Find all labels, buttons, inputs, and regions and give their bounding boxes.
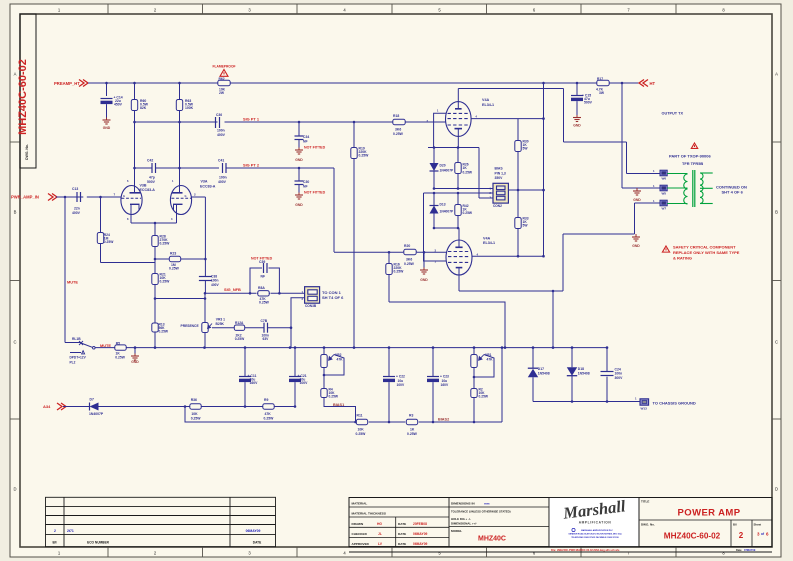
svg-text:300V: 300V [615, 376, 624, 380]
resistor R26 [457, 148, 459, 162]
svg-text:POWER AMP: POWER AMP [678, 508, 741, 519]
svg-text:D20: D20 [440, 164, 446, 168]
wire A34 line [63, 406, 90, 408]
wire chassis ground rail [533, 401, 640, 403]
svg-text:82K: 82K [140, 106, 147, 110]
svg-text:D17: D17 [538, 367, 544, 371]
svg-text:AMPLIFICATION: AMPLIFICATION [579, 521, 612, 525]
svg-text:HG: HG [377, 522, 382, 526]
capacitor C34 not fitted [298, 122, 300, 136]
svg-text:DWG. No.: DWG. No. [641, 523, 655, 527]
ground below C34 [298, 148, 300, 151]
svg-text:TO CHASSIS GROUND: TO CHASSIS GROUND [653, 401, 696, 406]
tube V3B ECC83 [121, 186, 142, 215]
svg-text:22n: 22n [74, 207, 80, 211]
resistor R18 [392, 121, 406, 123]
svg-text:0.25W: 0.25W [159, 330, 169, 334]
capacitor C13 [76, 192, 78, 202]
svg-text:MODEL: MODEL [451, 529, 462, 533]
marshall logo box [549, 498, 639, 547]
title block outline [349, 498, 772, 547]
svg-text:GND: GND [420, 278, 428, 282]
wire plate A to W6 branch [563, 89, 565, 143]
svg-text:R20: R20 [404, 244, 410, 248]
svg-text:MHZ40C-60-02: MHZ40C-60-02 [664, 532, 721, 541]
svg-text:D: D [775, 487, 778, 492]
svg-text:350V: 350V [495, 176, 504, 180]
potentiometer VR2 [323, 348, 325, 353]
svg-text:BIAS: BIAS [495, 167, 504, 171]
svg-text:0.25W: 0.25W [463, 170, 473, 174]
potentiometer VR1 [473, 348, 475, 353]
capacitor C11 [244, 348, 246, 377]
wire mute net vertical [64, 197, 66, 343]
svg-text:R5: R5 [116, 341, 120, 345]
svg-text:SIG_NFB: SIG_NFB [224, 287, 241, 292]
capacitor C22 [388, 348, 390, 377]
svg-text:GND: GND [131, 360, 139, 364]
node bus junctions [154, 346, 157, 349]
svg-text:2t71: 2t71 [67, 529, 74, 533]
wire bias lower line [185, 407, 356, 423]
wire pin2 V3A to lower rail [191, 196, 205, 198]
drawing number side box [20, 14, 36, 168]
capacitor C36 [215, 117, 217, 128]
svg-text:1N4007P: 1N4007P [440, 168, 455, 172]
resistor R42 [457, 193, 459, 203]
svg-text:0.25W: 0.25W [359, 154, 370, 158]
svg-text:RL1B: RL1B [72, 337, 81, 341]
svg-text:V4A: V4A [483, 236, 491, 240]
resistor R5 [114, 347, 127, 349]
wire R23 row [155, 258, 205, 260]
capacitor C41 [222, 163, 224, 173]
svg-text:NF: NF [261, 275, 266, 279]
svg-text:ECO NUMBER: ECO NUMBER [87, 541, 109, 545]
svg-text:0.25W: 0.25W [169, 267, 180, 271]
svg-text:ECC83-A: ECC83-A [200, 184, 216, 188]
wire CON2 pin1 row [434, 188, 493, 190]
resistor R9 [262, 406, 275, 408]
svg-text:SAFETY CRITICAL COMPONENT: SAFETY CRITICAL COMPONENT [673, 244, 736, 249]
wire R24 rail [101, 262, 156, 264]
svg-text:DWG. No.: DWG. No. [25, 144, 29, 160]
diode D13 [433, 193, 435, 206]
svg-text:450V: 450V [114, 103, 123, 107]
svg-text:2: 2 [739, 531, 744, 540]
revision table [46, 497, 276, 546]
svg-text:B: B [775, 210, 778, 215]
svg-text:& RATING: & RATING [673, 255, 692, 260]
svg-text:1K: 1K [410, 427, 415, 431]
svg-text:MHZ40C-60-02: MHZ40C-60-02 [17, 59, 29, 135]
svg-text:500V: 500V [147, 180, 156, 184]
resistor R16 [388, 252, 390, 262]
svg-text:0.25W: 0.25W [104, 240, 114, 244]
capacitor C39 not fitted [250, 268, 262, 293]
svg-text:06MAY09: 06MAY09 [413, 532, 428, 536]
svg-text:47K: 47K [337, 357, 344, 361]
wire pin1 lower tube [424, 193, 447, 261]
svg-text:Date: Date [736, 548, 742, 552]
resistor R33 [517, 190, 519, 216]
resistor R3 [406, 421, 419, 423]
svg-text:PL2: PL2 [70, 361, 76, 365]
svg-text:C34: C34 [303, 135, 309, 139]
svg-text:R11: R11 [357, 414, 363, 418]
svg-text:SHT 4 OF 6: SHT 4 OF 6 [722, 189, 744, 194]
svg-text:G: G [185, 194, 187, 198]
svg-text:NOT FITTED: NOT FITTED [304, 191, 326, 195]
svg-text:0.25W: 0.25W [404, 262, 415, 266]
wire HT vertical main [543, 83, 545, 256]
node SIG PT2 junctions [133, 167, 136, 170]
svg-text:ECC83-A: ECC83-A [140, 188, 156, 192]
svg-text:0.25W: 0.25W [463, 211, 473, 215]
node SIG PT1 junctions [133, 121, 136, 124]
resistor R30 [517, 119, 519, 139]
resistor R2 [473, 387, 475, 399]
svg-text:NF: NF [303, 185, 308, 189]
connector W7 [660, 200, 667, 206]
svg-text:C41: C41 [218, 159, 224, 163]
svg-text:3K6: 3K6 [406, 258, 412, 262]
wire CON2 to HT vertical [508, 189, 543, 191]
net label HT [639, 80, 644, 87]
svg-text:0.25W: 0.25W [407, 432, 418, 436]
svg-text:R18: R18 [393, 114, 399, 118]
svg-text:TITLE: TITLE [641, 500, 649, 504]
svg-text:JL: JL [378, 532, 382, 536]
ground tap on bus [134, 346, 137, 349]
resistor R11 [356, 421, 369, 423]
ground tap W5 line [636, 188, 638, 191]
svg-text:0.25W: 0.25W [394, 270, 405, 274]
svg-text:100n: 100n [217, 129, 225, 133]
wire grid feed lower tube [334, 251, 403, 253]
svg-text:0.25W: 0.25W [160, 280, 171, 284]
svg-text:47p: 47p [149, 176, 155, 180]
svg-text:0.25W: 0.25W [115, 355, 125, 359]
svg-text:PRESENCE: PRESENCE [181, 324, 200, 328]
svg-text:R17: R17 [597, 77, 603, 81]
svg-text:R12A: R12A [235, 321, 244, 325]
svg-text:C42: C42 [147, 159, 153, 163]
svg-text:D18: D18 [578, 367, 584, 371]
diode D18 [571, 348, 573, 368]
svg-text:C39: C39 [259, 260, 265, 264]
svg-text:TOLERANCE (UNLESS OTHERWISE ST: TOLERANCE (UNLESS OTHERWISE STATED) [451, 510, 511, 514]
svg-text:V3A: V3A [201, 180, 208, 184]
connector W6 [660, 170, 667, 176]
wire link row below SIG_NFB [155, 298, 205, 300]
svg-text:400V: 400V [72, 211, 81, 215]
svg-text:PIN 1,3: PIN 1,3 [495, 171, 506, 175]
wire bias return vertical [501, 348, 503, 422]
svg-text:MHZ40C: MHZ40C [478, 536, 506, 543]
potentiometer VR3 presence [204, 293, 206, 321]
svg-text:C: C [775, 340, 778, 345]
resistor R60 [133, 82, 136, 85]
wire SIG_NFB line [205, 292, 257, 294]
transformer core [692, 170, 694, 207]
svg-text:DRAWN: DRAWN [352, 522, 364, 526]
svg-text:GND: GND [295, 203, 303, 207]
svg-text:0.25W: 0.25W [479, 395, 489, 399]
svg-text:GND: GND [573, 124, 581, 128]
svg-text:SH T4 OF 6: SH T4 OF 6 [322, 295, 344, 300]
resistor R63 [178, 82, 181, 85]
svg-text:B/I: B/I [52, 541, 56, 545]
title block left column rows [349, 506, 449, 508]
connector W13 to chassis ground [640, 399, 649, 405]
wire input line [56, 196, 83, 198]
diode D7 [90, 403, 99, 411]
svg-text:R62: R62 [219, 77, 225, 81]
svg-text:NF: NF [303, 140, 308, 144]
svg-text:0.25W: 0.25W [393, 132, 404, 136]
svg-text:R36: R36 [191, 398, 197, 402]
capacitor C30 not fitted [298, 168, 300, 181]
svg-text:W13: W13 [641, 406, 648, 410]
wire diode row lower [434, 227, 458, 229]
svg-text:GND: GND [295, 158, 303, 162]
svg-text:07MAY09: 07MAY09 [744, 548, 756, 552]
svg-text:HOLE DIA + -/-: HOLE DIA + -/- [451, 517, 471, 521]
svg-text:W7: W7 [662, 206, 667, 210]
title block middle column [548, 498, 550, 547]
svg-text:400V: 400V [217, 133, 226, 137]
wire SIG PT 2 line [135, 167, 153, 169]
wire feedback to bus [552, 291, 554, 348]
ground below C14 [106, 118, 108, 121]
diode D20 [433, 148, 435, 164]
ground tap W7 line [635, 234, 637, 237]
wire feedback to W7 row [562, 234, 564, 291]
svg-text:EL34-1: EL34-1 [483, 241, 495, 245]
svg-text:0.25W: 0.25W [191, 416, 202, 420]
wire CON2 pin2 row [424, 192, 494, 194]
svg-text:DIMENSIONS IN: DIMENSIONS IN [451, 502, 475, 506]
svg-text:GND: GND [633, 198, 641, 202]
wire SIGPT2 drop to lower tube [333, 168, 335, 252]
svg-text:HT: HT [650, 81, 656, 86]
resistor R8A [257, 292, 270, 294]
svg-text:0.25W: 0.25W [235, 337, 245, 341]
wire cathode rail V3 [131, 222, 177, 224]
resistor R12A [234, 327, 246, 329]
transformer secondary winding [700, 173, 703, 179]
file strip [349, 546, 772, 548]
svg-text:D: D [13, 487, 16, 492]
wire CON2 pin3 feed [478, 148, 480, 199]
svg-text:160V: 160V [250, 381, 259, 385]
svg-text:C36: C36 [216, 113, 222, 117]
svg-text:MATERIAL THICKNESS: MATERIAL THICKNESS [352, 512, 386, 516]
ground tap near lower tube [423, 251, 426, 254]
transformer TFR5B primary winding [667, 173, 687, 175]
tube V3A ECC83 [170, 186, 191, 215]
svg-text:400V: 400V [218, 180, 227, 184]
wire plate B to W7 branch [563, 233, 635, 235]
svg-text:DATE: DATE [398, 542, 406, 546]
wire CON3B pin2 to bus [291, 298, 305, 348]
wire anode feed V3A [179, 122, 181, 168]
svg-text:V4A: V4A [482, 98, 490, 102]
wire diode row upper [428, 147, 479, 149]
svg-text:GND: GND [103, 126, 111, 130]
svg-text:160V: 160V [441, 383, 450, 387]
svg-text:10K: 10K [191, 412, 198, 416]
wire pin4 lower [472, 255, 544, 257]
capacitor C14 [105, 82, 108, 85]
capacitor C24 [606, 348, 608, 371]
svg-text:REPLACE ONLY WITH SAME TYPE: REPLACE ONLY WITH SAME TYPE [673, 250, 740, 255]
svg-text:CHECKED: CHECKED [352, 532, 368, 536]
svg-text:PWR_AMP_IN: PWR_AMP_IN [11, 195, 39, 200]
resistor R23 [169, 258, 182, 260]
svg-text:R23: R23 [170, 252, 176, 256]
svg-text:G: G [123, 194, 125, 198]
svg-text:DATE: DATE [398, 532, 406, 536]
resistor R13 [154, 299, 156, 322]
wire R16 to bus [389, 302, 505, 348]
svg-text:100V: 100V [300, 381, 309, 385]
svg-text:B25K: B25K [216, 322, 225, 326]
svg-text:R3: R3 [409, 414, 413, 418]
svg-text:MUTE: MUTE [100, 343, 111, 348]
capacitor C42 [151, 163, 153, 173]
diode D17 [532, 348, 534, 369]
svg-text:APPROVED: APPROVED [352, 542, 370, 546]
wire pin1 upper [434, 113, 447, 147]
connector CON3B [305, 287, 320, 304]
tube V4A upper EL34 [446, 102, 472, 137]
svg-text:SIG PT 1: SIG PT 1 [243, 117, 260, 122]
node bias lower junctions [354, 421, 357, 424]
wire HT bus [88, 82, 640, 84]
svg-text:Sheet: Sheet [754, 523, 762, 527]
svg-text:TFR TFR5B: TFR TFR5B [682, 161, 703, 166]
connector CON2 bias [493, 183, 508, 203]
svg-text:0.25W: 0.25W [356, 432, 367, 436]
svg-text:C7B: C7B [261, 319, 268, 323]
svg-text:06MAY09: 06MAY09 [413, 542, 428, 546]
svg-text:C13: C13 [72, 187, 78, 191]
svg-text:SIG PT 2: SIG PT 2 [243, 163, 260, 168]
ground below C30 [298, 193, 300, 196]
svg-text:V3B: V3B [140, 183, 147, 187]
svg-text:100V: 100V [397, 383, 406, 387]
svg-text:1N4007P: 1N4007P [89, 412, 104, 416]
svg-text:47K: 47K [265, 412, 272, 416]
svg-text:100K: 100K [185, 106, 194, 110]
wire pin4 upper [471, 118, 544, 120]
svg-text:C: C [13, 340, 16, 345]
svg-text:100n: 100n [211, 279, 219, 283]
svg-text:W6: W6 [662, 176, 667, 180]
flameproof warning transformer [691, 143, 697, 148]
title column [638, 498, 640, 547]
svg-text:0.25W: 0.25W [264, 416, 275, 420]
resistor R28 [154, 223, 156, 234]
svg-text:D13: D13 [440, 202, 446, 206]
capacitor C7B [246, 327, 265, 329]
svg-text:1N5408: 1N5408 [538, 372, 550, 376]
resistor R24 [100, 197, 102, 231]
resistor R62 [217, 82, 231, 84]
wire plate to HT loop upper [458, 88, 563, 90]
svg-text:A34: A34 [43, 404, 51, 409]
svg-text:1N4007P: 1N4007P [440, 209, 455, 213]
capacitor C38 [204, 259, 206, 276]
svg-text:20FEB08: 20FEB08 [413, 522, 427, 526]
svg-text:FLAMEPROOF: FLAMEPROOF [212, 65, 235, 69]
svg-text:TELEPHONE 01908 375411 FACSIM: TELEPHONE 01908 375411 FACSIMILE 01908 3… [571, 536, 618, 539]
svg-text:mm: mm [484, 502, 490, 506]
node input junctions [64, 196, 67, 199]
svg-text:0.25W: 0.25W [259, 301, 270, 305]
svg-text:63V: 63V [263, 337, 270, 341]
svg-text:NOT FITTED: NOT FITTED [304, 146, 326, 150]
svg-text:C30: C30 [303, 180, 309, 184]
svg-text:0.25W: 0.25W [160, 242, 171, 246]
svg-text:OUTPUT TX: OUTPUT TX [662, 111, 684, 115]
svg-text:BIAS2: BIAS2 [438, 418, 449, 422]
resistor R17 [596, 82, 610, 84]
svg-text:D7: D7 [90, 398, 94, 402]
svg-text:1N5408: 1N5408 [578, 372, 590, 376]
wire anode feed V3B [134, 122, 136, 168]
svg-text:0.25W: 0.25W [329, 395, 339, 399]
capacitor C15 [576, 82, 579, 85]
capacitor C23 [432, 348, 434, 377]
svg-text:PART OF TXOP-90006: PART OF TXOP-90006 [669, 154, 711, 159]
safety critical note [662, 246, 669, 252]
resistor R19 [353, 122, 355, 146]
svg-text:10K: 10K [358, 427, 365, 431]
svg-text:06MAY09: 06MAY09 [246, 529, 261, 533]
svg-text:47K: 47K [487, 357, 494, 361]
wire main bias bus [95, 347, 607, 349]
resistor R20 [403, 251, 417, 253]
svg-text:500V: 500V [584, 101, 593, 105]
svg-text:MARSHALL AMPLIFICATION PLC: MARSHALL AMPLIFICATION PLC [581, 529, 613, 532]
svg-text:2: 2 [54, 529, 56, 533]
svg-text:B: B [14, 210, 17, 215]
svg-text:PREAMP_HT: PREAMP_HT [54, 81, 80, 86]
wire W5 branch [621, 83, 623, 188]
svg-text:MATERIAL: MATERIAL [352, 502, 368, 506]
svg-text:DENBIGH ROAD, BLETCHLEY, MILTO: DENBIGH ROAD, BLETCHLEY, MILTON KEYNES, … [569, 533, 622, 536]
svg-text:100n: 100n [219, 176, 227, 180]
wire cathode lower feedback [459, 290, 563, 292]
svg-text:B/I: B/I [733, 523, 737, 527]
svg-text:DATE: DATE [253, 541, 261, 545]
ground below C15 [576, 115, 578, 118]
zone tick marks top/bottom [107, 4, 109, 14]
svg-text:MUTE: MUTE [67, 279, 78, 284]
resistor R36 [189, 406, 202, 408]
svg-text:File: JMHZ40C-PWR MHZ40C-60-02: File: JMHZ40C-PWR MHZ40C-60-02-ISS2.dwg … [551, 549, 620, 552]
svg-text:3K6: 3K6 [395, 128, 401, 132]
wire SIG PT 1 line [135, 121, 218, 123]
resistor R21 [154, 259, 156, 272]
capacitor C21 [294, 348, 296, 377]
svg-text:A: A [775, 72, 778, 77]
svg-text:EL34-1: EL34-1 [482, 103, 494, 107]
svg-text:DIMENSIONAL ++/-: DIMENSIONAL ++/- [451, 522, 477, 526]
